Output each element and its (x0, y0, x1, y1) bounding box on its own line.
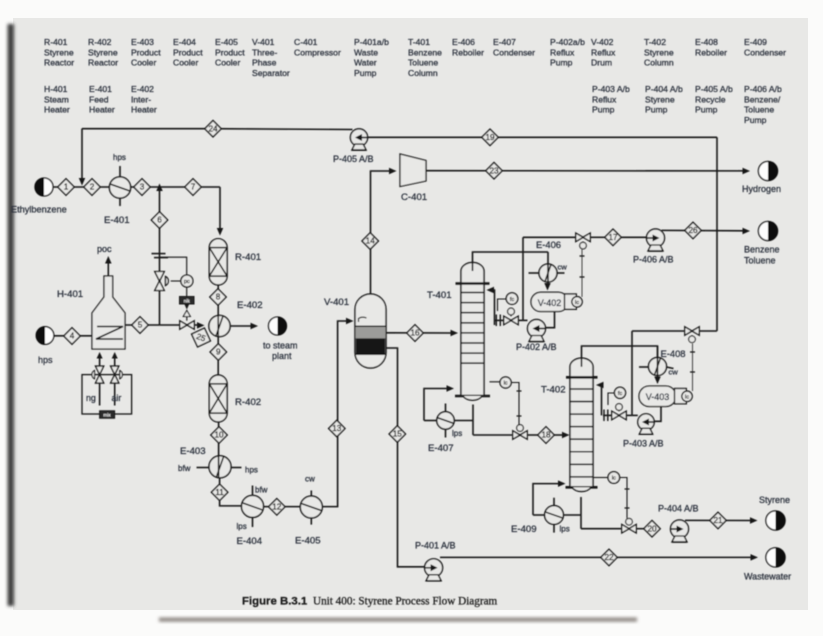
svg-text:lps: lps (560, 525, 570, 534)
wire recycle riser (716, 137, 718, 331)
svg-text:V-402: V-402 (538, 298, 562, 308)
svg-text:Styrene: Styrene (44, 47, 74, 57)
svg-text:cw: cw (305, 475, 315, 484)
equipment legend row 1 (44, 37, 786, 78)
svg-text:Column: Column (644, 58, 674, 68)
wire steam riser (159, 187, 161, 325)
svg-text:15: 15 (393, 430, 403, 439)
reflux control valve (504, 308, 519, 325)
svg-text:V-403: V-403 (646, 392, 670, 402)
svg-text:Benzene: Benzene (408, 47, 442, 57)
svg-text:1: 1 (64, 183, 69, 192)
svg-text:bfw: bfw (255, 486, 268, 495)
svg-text:V-401: V-401 (252, 37, 275, 47)
svg-text:nik: nik (184, 298, 191, 303)
stream 8 (210, 289, 226, 305)
reflux drum V-402 (531, 292, 568, 311)
svg-text:Recycle: Recycle (695, 94, 726, 104)
wire steam from H-401 (125, 322, 205, 329)
svg-text:Cooler: Cooler (215, 58, 240, 68)
svg-text:E-401: E-401 (104, 215, 130, 226)
svg-text:C-401: C-401 (401, 192, 427, 203)
svg-text:Hydrogen: Hydrogen (742, 184, 781, 194)
air control valve (111, 366, 123, 383)
steam control valve to E-402 (180, 321, 195, 330)
wire C-401 to hydrogen (426, 168, 750, 175)
stream 1 (58, 179, 74, 195)
to steam plant product symbol (263, 317, 298, 361)
svg-text:Condenser: Condenser (744, 47, 786, 57)
wire V-403 to P-403 (654, 407, 661, 422)
svg-text:P-406 A/B: P-406 A/B (633, 255, 674, 265)
wire distillate riser (522, 237, 524, 320)
recycle control valve (685, 327, 700, 343)
svg-text:19: 19 (485, 133, 495, 142)
reflux drum V-403 (639, 386, 676, 407)
wire benzene toluene product line (662, 228, 751, 235)
svg-text:mix: mix (103, 413, 111, 418)
svg-text:lc: lc (504, 381, 508, 387)
svg-text:2: 2 (90, 183, 95, 192)
svg-text:16: 16 (410, 329, 420, 338)
pump P-402 A/B (516, 320, 557, 353)
svg-text:E-405: E-405 (215, 37, 238, 47)
stream 16 (407, 325, 423, 341)
svg-text:Toluene: Toluene (744, 105, 774, 115)
wire P-403 discharge (603, 414, 638, 416)
stream 24 (205, 121, 221, 137)
wire T-401 bottoms (473, 405, 538, 436)
wire E-403 to E-404 (220, 478, 242, 506)
svg-text:Pump: Pump (354, 68, 377, 78)
svg-text:Cooler: Cooler (173, 58, 198, 68)
level instrument on V-403 (675, 389, 693, 404)
svg-text:Toluene: Toluene (408, 58, 438, 68)
wire wastewater line (440, 554, 758, 561)
stream 10 (211, 427, 227, 443)
stream 21 (710, 512, 726, 528)
svg-text:17: 17 (608, 233, 618, 242)
wire feed line (53, 186, 220, 188)
steam valve actuator (183, 304, 190, 321)
wire T-402 bottoms (581, 497, 644, 529)
svg-text:Cooler: Cooler (131, 58, 156, 68)
svg-text:E-408: E-408 (695, 37, 718, 47)
svg-text:fc: fc (510, 297, 515, 303)
equipment legend row 2 (44, 84, 782, 125)
level instrument on V-402 (565, 294, 583, 309)
stream 12 (269, 499, 285, 515)
svg-text:Drum: Drum (591, 58, 612, 68)
stream 20 (644, 521, 660, 537)
wire T-401 overhead (473, 252, 549, 271)
stream 13 (329, 420, 345, 436)
wire E-409 draw line (563, 514, 581, 516)
svg-text:P-404 A/b: P-404 A/b (645, 84, 683, 94)
wire recycle from P-403 (632, 331, 717, 415)
wastewater product symbol (744, 548, 791, 582)
svg-text:Benzene/: Benzene/ (744, 94, 781, 104)
svg-text:T-402: T-402 (541, 385, 566, 396)
wire recycle suction (368, 136, 717, 138)
svg-text:Pump: Pump (744, 115, 767, 125)
svg-text:E-405: E-405 (295, 536, 321, 547)
svg-text:V-401: V-401 (324, 297, 349, 308)
svg-text:E-402: E-402 (237, 300, 263, 311)
svg-text:to steam: to steam (263, 341, 298, 351)
stream 5 (132, 317, 148, 333)
svg-text:lc: lc (575, 300, 579, 306)
svg-text:E-407: E-407 (493, 37, 516, 47)
reactor R-402 (209, 375, 261, 422)
stream 17 (605, 229, 621, 245)
wire hps to H-401 (54, 335, 92, 337)
svg-text:14: 14 (366, 237, 376, 246)
svg-text:Benzene: Benzene (744, 245, 780, 255)
svg-text:26: 26 (688, 226, 698, 235)
burner air/ng manifold (82, 375, 132, 414)
svg-text:P-406 A/b: P-406 A/b (744, 84, 782, 94)
svg-text:P-405 A/B: P-405 A/B (333, 154, 374, 164)
reactor R-401 (209, 239, 261, 285)
svg-text:V-402: V-402 (591, 37, 614, 47)
steam injection junction arrow (156, 184, 163, 192)
svg-text:Heater: Heater (89, 105, 115, 115)
svg-text:Pump: Pump (592, 105, 615, 115)
wire R-402 to E-403 (218, 422, 220, 477)
svg-text:Water: Water (354, 58, 377, 68)
svg-text:Steam: Steam (44, 94, 69, 104)
heat exchanger E-401 (104, 153, 131, 226)
level signal to recycle valve (690, 344, 695, 392)
svg-text:7: 7 (191, 183, 196, 192)
svg-text:air: air (112, 393, 122, 403)
flow controller on reflux (498, 293, 518, 311)
svg-text:Figure B.3.1: Figure B.3.1 (242, 596, 308, 608)
line break marks (152, 254, 169, 258)
svg-text:Condenser: Condenser (493, 47, 535, 57)
svg-text:P-405 A/b: P-405 A/b (695, 84, 733, 94)
svg-text:E-408: E-408 (661, 348, 686, 359)
svg-text:Product: Product (131, 47, 161, 57)
wire E-406 into V-402 (544, 252, 551, 291)
wire ng burner (97, 352, 103, 406)
wire reflux line (495, 319, 528, 321)
svg-text:E-409: E-409 (744, 37, 767, 47)
stream 19 (482, 129, 498, 145)
reflux flange ticks T-402 (604, 410, 608, 422)
air label (112, 393, 122, 403)
bottoms control valve T-402 (622, 518, 637, 533)
heat exchanger E-407 reboiler (428, 404, 462, 455)
level controller T-402 (594, 472, 630, 519)
svg-text:18: 18 (541, 431, 551, 440)
svg-text:cw: cw (558, 263, 568, 272)
wire T-402 overhead (582, 346, 658, 367)
svg-text:23: 23 (489, 166, 499, 175)
wire reflux riser into T-402 (596, 382, 604, 416)
controller box (180, 287, 195, 304)
svg-text:9: 9 (216, 348, 221, 357)
pressure letdown valve (155, 272, 165, 291)
reflux control valve T-402 (612, 404, 627, 420)
svg-text:Reflux: Reflux (550, 47, 575, 57)
wire E-404 to E-405 (264, 506, 301, 508)
figure caption (242, 596, 498, 608)
reflux flange ticks (496, 315, 500, 327)
svg-text:Feed: Feed (89, 94, 109, 104)
svg-text:Inter-: Inter- (131, 94, 151, 104)
wire feed down to R-401 (217, 187, 224, 236)
svg-text:Phase: Phase (252, 58, 277, 68)
wire E-405 to V-401 (322, 318, 353, 507)
stream 26 (685, 222, 701, 238)
svg-text:12: 12 (272, 503, 282, 512)
separator V-401 (324, 294, 386, 368)
wire recycle discharge to feed (82, 128, 353, 131)
stream 9 (210, 344, 226, 360)
svg-text:R-402: R-402 (88, 37, 112, 47)
svg-text:Heater: Heater (44, 105, 70, 115)
wire V-402 to P-402 (546, 312, 555, 328)
svg-text:R-402: R-402 (235, 397, 261, 408)
svg-text:20: 20 (647, 524, 657, 533)
wire E-409 return to T-402 (533, 480, 566, 515)
heat exchanger E-405 (295, 475, 322, 547)
svg-text:P-402a/b: P-402a/b (550, 37, 585, 47)
wire styrene product line (685, 517, 758, 524)
column T-402 (541, 358, 598, 491)
stream 7 (185, 179, 201, 195)
wire R-401 to E-402 (217, 285, 219, 337)
svg-text:P-403 A/b: P-403 A/b (592, 84, 630, 94)
stream 14 (362, 233, 378, 249)
hydrogen product symbol (742, 161, 781, 194)
svg-text:fc: fc (618, 391, 623, 397)
svg-text:Unit 400: Styrene Process Flow: Unit 400: Styrene Process Flow Diagram (313, 596, 498, 608)
ng control valve (92, 366, 104, 383)
svg-text:4: 4 (70, 332, 75, 341)
svg-text:21: 21 (713, 516, 723, 525)
svg-text:P-401a/b: P-401a/b (354, 37, 389, 47)
svg-text:Waste: Waste (354, 47, 378, 57)
svg-text:E-404: E-404 (173, 37, 196, 47)
wire air burner (112, 352, 118, 406)
svg-text:lc: lc (685, 395, 689, 401)
svg-text:Product: Product (173, 47, 203, 57)
svg-text:Styrene: Styrene (645, 94, 675, 104)
compressor C-401 (400, 154, 427, 203)
svg-text:bfw: bfw (178, 464, 191, 473)
heat exchanger E-409 reboiler (511, 498, 570, 535)
wire V-401 water to P-401 (386, 348, 425, 567)
page binding shadow (left scan edge) (8, 24, 15, 606)
column T-401 (427, 263, 490, 401)
svg-text:E-403: E-403 (180, 446, 206, 457)
svg-text:E-406: E-406 (536, 239, 561, 250)
stream 3 (134, 179, 150, 195)
wire feed into T-402 (554, 432, 570, 439)
svg-text:E-404: E-404 (237, 536, 263, 547)
wire E-408 into V-403 (654, 346, 661, 384)
svg-text:Reactor: Reactor (88, 58, 118, 68)
svg-text:E-402: E-402 (131, 84, 154, 94)
pressure controller (160, 257, 193, 287)
svg-text:Separator: Separator (252, 68, 290, 78)
svg-text:Reboiler: Reboiler (695, 47, 727, 57)
svg-text:lps: lps (452, 429, 462, 438)
svg-text:ng: ng (86, 393, 96, 403)
svg-text:Pump: Pump (550, 58, 573, 68)
svg-text:cw: cw (669, 368, 679, 377)
svg-text:P-402 A/B: P-402 A/B (516, 342, 557, 352)
ethylbenzene feed symbol (11, 178, 67, 215)
wire E-407 return to T-401 (424, 385, 454, 420)
svg-text:Wastewater: Wastewater (744, 572, 791, 582)
pump P-405 A/B (333, 129, 374, 164)
svg-text:hps: hps (38, 355, 53, 365)
pump P-401 A/B (415, 541, 456, 581)
wire E-402 to R-402 (217, 337, 219, 376)
svg-text:H-401: H-401 (44, 84, 68, 94)
hps feed symbol (36, 327, 54, 365)
heat exchanger E-408 condenser (639, 348, 686, 377)
svg-text:Reboiler: Reboiler (452, 47, 484, 57)
svg-text:E-409: E-409 (511, 524, 537, 535)
svg-text:Pump: Pump (695, 105, 718, 115)
svg-text:E-401: E-401 (89, 84, 112, 94)
flow controller T-402 reflux (608, 387, 626, 405)
svg-text:P-404 A/B: P-404 A/B (658, 504, 699, 514)
svg-text:R-401: R-401 (44, 37, 68, 47)
svg-text:Reflux: Reflux (592, 94, 617, 104)
heat exchanger E-402 (209, 300, 263, 337)
svg-text:10: 10 (214, 431, 224, 440)
valve diaphragm (166, 277, 182, 286)
stream 6 (151, 212, 167, 228)
svg-text:11: 11 (215, 488, 224, 497)
svg-text:Ethylbenzene: Ethylbenzene (11, 205, 67, 215)
svg-text:T-402: T-402 (644, 37, 666, 47)
svg-text:Product: Product (215, 47, 245, 57)
svg-text:T-401: T-401 (427, 290, 452, 301)
scan artifact line at bottom (159, 618, 637, 622)
svg-text:lc: lc (612, 476, 616, 482)
svg-text:E-407: E-407 (428, 443, 454, 454)
svg-text:P-401 A/B: P-401 A/B (415, 541, 456, 551)
wire E-407 draw line (454, 420, 473, 422)
styrene product symbol (759, 495, 790, 530)
wire V-401 to T-401 (386, 330, 458, 337)
stream 4 (64, 328, 80, 344)
mix box (100, 411, 115, 418)
level signal to distillate valve (580, 250, 585, 298)
ng label (86, 393, 96, 403)
pump P-404 A/B (658, 504, 699, 543)
svg-text:Toluene: Toluene (744, 256, 776, 266)
stream 15 (389, 426, 405, 442)
svg-text:Styrene: Styrene (759, 495, 790, 505)
distillate control valve (576, 233, 591, 249)
svg-text:Compressor: Compressor (294, 47, 341, 57)
stream 11 (211, 484, 227, 500)
svg-text:22: 22 (604, 553, 614, 562)
svg-text:pc: pc (184, 279, 190, 285)
stream 23 (486, 163, 502, 179)
level controller T-401 (490, 377, 522, 425)
wire V-401 to C-401 (371, 168, 397, 294)
heat exchanger E-403 (178, 446, 258, 478)
pump P-406 A/B (633, 229, 674, 265)
stream 25 (188, 325, 214, 351)
svg-text:P-403 A/B: P-403 A/B (623, 439, 664, 449)
svg-text:8: 8 (216, 293, 221, 302)
svg-text:R-401: R-401 (235, 252, 261, 263)
pump P-403 A/B (623, 414, 664, 449)
svg-text:3: 3 (140, 183, 145, 192)
benzene toluene product symbol (744, 221, 780, 265)
svg-text:Styrene: Styrene (88, 47, 118, 57)
heat exchanger E-404 (237, 486, 268, 548)
wire poc stack (97, 244, 112, 276)
svg-text:Styrene: Styrene (644, 47, 674, 57)
svg-text:plant: plant (272, 351, 292, 361)
svg-text:13: 13 (332, 424, 342, 433)
svg-text:Reflux: Reflux (591, 47, 616, 57)
svg-text:E-406: E-406 (452, 37, 475, 47)
furnace H-401 (57, 276, 125, 349)
svg-text:hps: hps (245, 466, 258, 475)
svg-text:lps: lps (237, 522, 247, 531)
svg-text:Reactor: Reactor (44, 58, 74, 68)
wire reflux riser into T-401 (487, 287, 495, 325)
stream 18 (538, 427, 554, 443)
recycle wire into feed line (79, 129, 86, 186)
svg-text:C-401: C-401 (294, 37, 318, 47)
stream 2 (84, 179, 100, 195)
heat exchanger E-406 condenser (529, 239, 568, 282)
stream 22 (601, 549, 617, 565)
svg-text:hps: hps (113, 153, 126, 162)
svg-text:T-401: T-401 (408, 37, 430, 47)
svg-text:Three-: Three- (252, 47, 277, 57)
svg-text:6: 6 (157, 216, 162, 225)
svg-text:Pump: Pump (645, 105, 668, 115)
svg-text:E-403: E-403 (131, 37, 154, 47)
svg-text:24: 24 (208, 124, 218, 133)
wire E-402 to steam plant (230, 323, 258, 330)
svg-text:poc: poc (97, 244, 112, 254)
svg-text:5: 5 (138, 321, 143, 330)
wire distillate line (523, 236, 647, 238)
bottoms control valve T-401 (513, 425, 528, 440)
svg-text:Column: Column (408, 68, 438, 78)
svg-text:H-401: H-401 (57, 289, 83, 300)
svg-text:Heater: Heater (131, 105, 157, 115)
